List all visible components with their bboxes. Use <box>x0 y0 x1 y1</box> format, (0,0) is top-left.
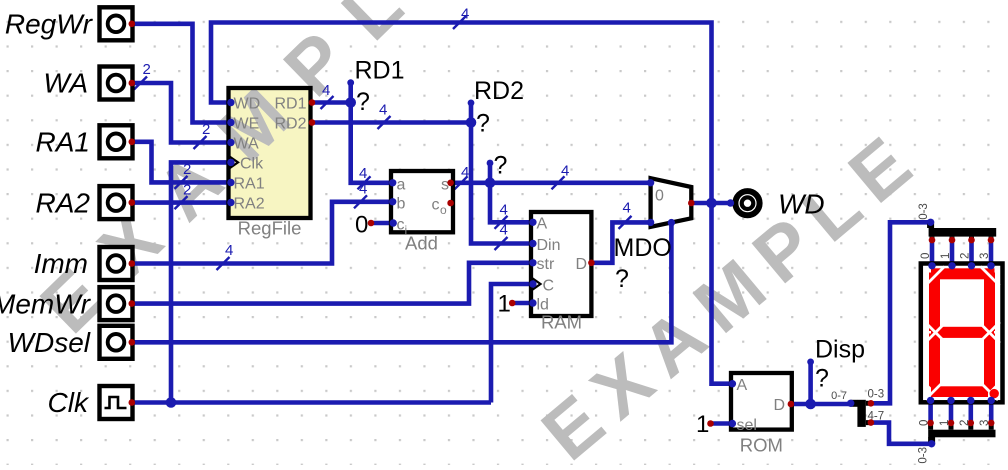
svg-text:MDO: MDO <box>614 234 672 262</box>
wire mux output to WD output pin <box>691 201 731 206</box>
memory RAM <box>529 212 595 333</box>
svg-text:WD: WD <box>234 96 261 113</box>
svg-text:0: 0 <box>920 253 932 259</box>
svg-text:RD1: RD1 <box>274 96 306 113</box>
memory ROM <box>729 373 795 456</box>
svg-text:2: 2 <box>959 420 971 426</box>
svg-text:MemWr: MemWr <box>0 288 92 319</box>
probe stub end Disp <box>807 359 814 366</box>
svg-text:4: 4 <box>379 102 387 119</box>
svg-text:0: 0 <box>919 420 931 426</box>
bus width 4 marker after Add.s <box>455 164 470 189</box>
svg-text:4: 4 <box>225 242 233 259</box>
svg-text:4: 4 <box>561 163 569 180</box>
wire s-node probe stub and down to RAM.A <box>490 163 532 222</box>
splitter S3 0-3 to display bottom segments <box>918 420 996 464</box>
svg-text:4-7: 4-7 <box>868 410 885 422</box>
svg-text:Add: Add <box>405 233 438 254</box>
svg-text:RegFile: RegFile <box>238 218 302 239</box>
constant 0 at Add.ci <box>355 212 374 239</box>
svg-text:?: ? <box>615 265 629 293</box>
bus width 4 marker on RD2 wire <box>378 102 391 130</box>
svg-text:RAM: RAM <box>541 312 582 333</box>
svg-text:4: 4 <box>500 202 508 219</box>
label Disp probe <box>815 336 865 393</box>
svg-text:2: 2 <box>143 61 151 78</box>
wire splitter branch 0-3 to top splitter <box>871 222 931 403</box>
svg-text:A: A <box>737 377 748 394</box>
svg-text:RA2: RA2 <box>234 196 265 213</box>
constant 1 at RAM.ld <box>498 291 516 318</box>
bus width 2 marker at RegFile.RA2 <box>175 182 192 210</box>
svg-text:WDsel: WDsel <box>8 327 91 358</box>
label s-node probe <box>494 152 508 180</box>
svg-text:WA: WA <box>43 68 88 99</box>
wire Clk pin horizontal <box>131 400 492 405</box>
junction RD1 node <box>345 97 356 108</box>
svg-text:Imm: Imm <box>34 248 88 279</box>
svg-text:sel: sel <box>737 417 757 434</box>
bus width 4 marker at mux input 1 <box>619 200 632 229</box>
svg-text:Disp: Disp <box>815 336 865 364</box>
probe stub end RD1 <box>347 79 354 86</box>
label RD1 probe <box>355 56 405 116</box>
wire Imm pin to Add.b <box>132 202 392 264</box>
svg-text:0-3: 0-3 <box>918 203 930 220</box>
svg-text:?: ? <box>815 365 829 393</box>
watermark EXAMPLE left <box>25 0 498 349</box>
wire RA1 pin to RegFile.RA1 <box>132 142 229 183</box>
input pin Clk (clock) <box>48 386 136 419</box>
input pin RegWr <box>5 7 135 40</box>
svg-text:2: 2 <box>202 121 210 138</box>
wire Disp probe stub <box>808 362 813 404</box>
RegFile subcircuit body fill <box>229 88 311 218</box>
svg-text:RA1: RA1 <box>36 127 90 158</box>
input pin Imm <box>34 247 136 280</box>
wires top splitter branches to display top pins <box>932 240 991 266</box>
bus width 4 marker on RD1 wire <box>321 82 334 109</box>
label RD2 probe <box>474 77 524 138</box>
constant 1 at ROM.sel <box>696 411 714 438</box>
7-segment display showing 8 <box>921 262 1003 404</box>
wire constant 1 to ROM.sel <box>711 421 732 426</box>
svg-text:2: 2 <box>960 253 972 259</box>
probe stub end RD2 <box>468 100 475 107</box>
wire WDsel pin to mux select <box>132 223 671 342</box>
svg-text:?: ? <box>476 110 490 138</box>
wire Clk riser to RegFile.Clk <box>171 162 230 402</box>
wire RA2 pin to RegFile.RA2 <box>132 200 229 205</box>
svg-text:1: 1 <box>940 253 952 259</box>
probe stub end s node <box>487 160 494 167</box>
watermark EXAMPLE right <box>526 113 937 470</box>
svg-text:b: b <box>397 195 406 212</box>
svg-text:2: 2 <box>183 182 191 199</box>
svg-text:0: 0 <box>355 212 368 239</box>
bus width 2 marker at RegFile.WA <box>194 121 211 149</box>
svg-text:A: A <box>537 215 548 232</box>
svg-text:c: c <box>397 216 405 233</box>
svg-text:RD2: RD2 <box>474 77 524 105</box>
wire constant 0 to Add.ci <box>371 221 392 226</box>
wire RegFile.RD2 to junction <box>312 120 471 125</box>
junction at mux output node <box>706 198 717 209</box>
svg-text:WD: WD <box>778 189 825 220</box>
svg-text:3: 3 <box>979 420 991 426</box>
wire ROM.D to splitter <box>791 402 851 407</box>
wire Clk riser to RAM.C <box>491 284 532 403</box>
svg-text:4: 4 <box>461 6 469 23</box>
svg-text:RD2: RD2 <box>274 116 306 133</box>
bus width 4 marker at RAM.A <box>495 202 508 229</box>
wire mux output down to ROM.A <box>712 203 732 384</box>
svg-text:Clk: Clk <box>48 387 90 418</box>
bus width 2 marker at RegFile.RA1 <box>175 161 192 189</box>
svg-text:WE: WE <box>234 116 260 133</box>
svg-text:4: 4 <box>623 200 631 217</box>
input pin WDsel <box>8 326 136 359</box>
wire write-back bus: mux output up and across top to RegFile.WD <box>211 23 712 204</box>
wire RegWr pin to RegFile.WE <box>132 24 229 123</box>
svg-text:1: 1 <box>939 420 951 426</box>
junction Disp node <box>805 399 816 410</box>
bus width 4 marker at RAM.Din <box>495 222 508 251</box>
wire RD2 probe stub and down to RAM.Din <box>471 103 532 244</box>
svg-text:o: o <box>440 203 447 217</box>
svg-text:ROM: ROM <box>740 435 783 456</box>
input pin MemWr <box>0 287 135 320</box>
svg-text:WA: WA <box>234 136 260 153</box>
svg-text:1: 1 <box>498 291 511 318</box>
bus width 4 marker at Add.a <box>358 165 371 189</box>
svg-text:RD1: RD1 <box>355 56 405 84</box>
svg-text:?: ? <box>494 152 508 180</box>
bus width 2 marker at WA pin <box>134 61 151 90</box>
svg-text:0-3: 0-3 <box>868 389 885 401</box>
svg-text:s: s <box>441 176 449 193</box>
svg-text:0: 0 <box>655 188 664 205</box>
svg-text:?: ? <box>356 88 370 116</box>
input pin RA1 <box>36 125 136 158</box>
wire Add.s to mux input 0 <box>451 181 651 186</box>
junction on Clk net at RegFile riser <box>166 397 177 408</box>
svg-text:4: 4 <box>359 165 367 182</box>
bus width 4 marker on Imm wire <box>217 242 234 270</box>
svg-text:0-3: 0-3 <box>918 447 930 464</box>
svg-text:Clk: Clk <box>240 156 264 173</box>
svg-text:4: 4 <box>322 82 330 99</box>
wire RD1 probe stub and down to Add.a <box>351 83 392 183</box>
subcircuit RegFile <box>227 88 315 239</box>
input pin RA2 <box>36 186 136 219</box>
svg-text:RegWr: RegWr <box>5 9 94 40</box>
svg-text:RA2: RA2 <box>36 187 91 218</box>
svg-text:3: 3 <box>979 253 991 259</box>
svg-text:str: str <box>537 256 555 273</box>
junction s node <box>485 178 496 189</box>
multiplexer MUX <box>647 178 695 227</box>
svg-text:4: 4 <box>461 164 469 181</box>
splitter S1 bus 0-7 into 0-3 and 4-7 <box>831 389 884 427</box>
output pin WD <box>727 189 825 220</box>
svg-text:RA1: RA1 <box>234 176 265 193</box>
svg-text:c: c <box>432 197 440 214</box>
wire MemWr pin to RAM.str <box>132 263 532 304</box>
svg-text:D: D <box>575 256 587 273</box>
wire WA pin to RegFile.WA <box>132 83 229 143</box>
bus width 4 marker at Add.b <box>354 181 367 209</box>
label MDO probe <box>614 234 672 293</box>
input pin WA <box>43 67 135 100</box>
junction RD2 node <box>466 117 477 128</box>
svg-text:C: C <box>543 277 555 294</box>
svg-text:Din: Din <box>537 237 561 254</box>
svg-text:a: a <box>397 176 406 193</box>
svg-text:0-7: 0-7 <box>831 390 847 402</box>
splitter S2 0-3 to display top segments <box>918 203 996 259</box>
wire constant 1 to RAM.ld <box>512 301 532 306</box>
bus width 4 marker on write-back wire <box>453 6 469 30</box>
bus width 4 marker before mux input 0 <box>552 163 570 190</box>
wire RAM.D to mux input 1 (MDO) <box>591 222 650 262</box>
wire splitter branch 4-7 to bottom splitter <box>871 423 932 444</box>
adder Add <box>389 171 454 254</box>
svg-text:D: D <box>773 397 785 414</box>
wire RegFile.RD1 to junction <box>312 100 351 105</box>
wires bottom splitter branches to display bottom pins <box>931 401 992 423</box>
